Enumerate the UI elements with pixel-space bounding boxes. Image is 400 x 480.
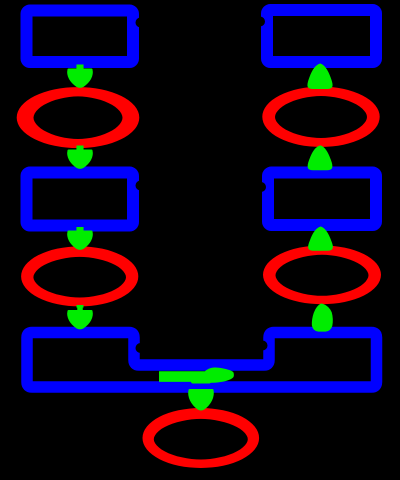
arrow A2 (E1 to B2) <box>68 146 92 168</box>
notch on box B5 right step left edge <box>258 341 268 351</box>
arrow A10 (B5 to E5) <box>189 376 213 410</box>
notch on box B4 left edge <box>256 182 266 192</box>
ellipse E5 (bottom center red ellipse) <box>143 408 260 468</box>
box B1 (top-left blue rectangle) <box>27 11 134 63</box>
notch on box B2 right edge <box>136 181 146 191</box>
box B2 (left column second blue rectangle) <box>27 173 134 226</box>
arrow A5 (B3 to E3) <box>308 64 332 88</box>
ellipse E1 (left column first red ellipse) <box>17 87 140 148</box>
arrow A8 (E4 to B5) <box>313 304 333 331</box>
box B5 (wide bottom blue shape with stepped top) <box>27 333 377 388</box>
ellipse E2 (left column second red ellipse) <box>21 246 138 306</box>
arrow A3 (B2 to E2) <box>68 227 92 249</box>
ellipse E4 (right column second red ellipse) <box>263 245 381 304</box>
notch on box B5 left step right edge <box>136 343 146 353</box>
box B4 (right column second blue rectangle) <box>268 173 376 226</box>
notch on box B1 right edge <box>136 18 146 28</box>
arrow A4 (E2 to B5) <box>68 306 92 329</box>
arrow A7 (B4 to E4) <box>309 227 332 250</box>
box B3 (top-right blue rectangle) <box>267 10 376 62</box>
arrow A9 (horizontal arrow inside B5) <box>159 368 234 383</box>
ellipse E3 (right column first red ellipse) <box>262 87 379 147</box>
arrow A6 (E3 to B4) <box>308 146 331 169</box>
arrow A1 (B1 to E1) <box>68 65 92 87</box>
notch on box B3 left edge <box>255 17 265 27</box>
